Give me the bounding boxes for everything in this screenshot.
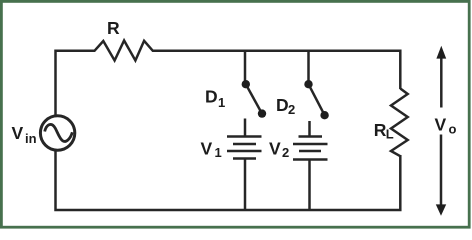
svg-text:1: 1	[215, 145, 222, 160]
svg-text:2: 2	[288, 102, 295, 117]
svg-text:1: 1	[218, 95, 225, 110]
svg-text:V: V	[269, 139, 281, 159]
svg-text:V: V	[435, 115, 447, 135]
svg-text:o: o	[449, 122, 457, 137]
svg-text:R: R	[107, 18, 120, 38]
svg-text:in: in	[25, 131, 37, 146]
svg-text:V: V	[201, 139, 213, 159]
svg-text:L: L	[386, 127, 394, 142]
svg-text:2: 2	[282, 145, 289, 160]
svg-text:D: D	[205, 87, 218, 107]
svg-text:D: D	[276, 95, 289, 115]
svg-text:V: V	[12, 123, 24, 143]
